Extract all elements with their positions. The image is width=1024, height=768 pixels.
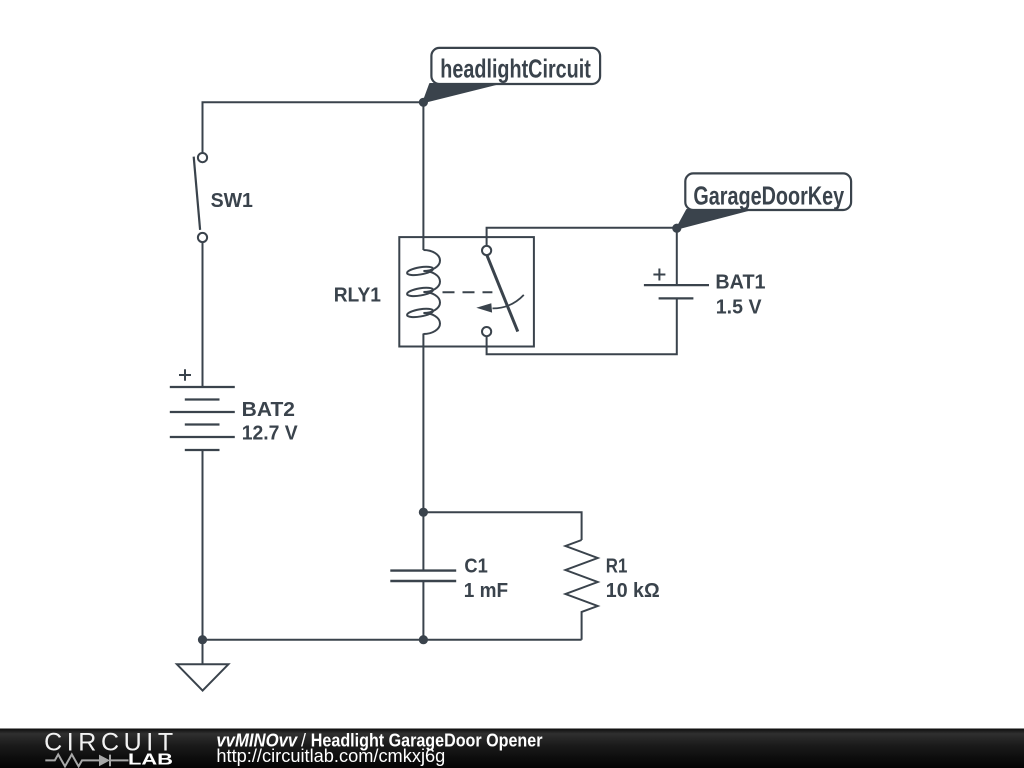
- svg-text:1 mF: 1 mF: [464, 580, 508, 602]
- wire relay switch top stub to GarageDoorKey node: [487, 228, 677, 251]
- svg-text:10 kΩ: 10 kΩ: [606, 580, 660, 602]
- svg-text:headlightCircuit: headlightCircuit: [440, 54, 591, 84]
- footer bar: [0, 729, 1024, 768]
- junction dot headlightCircuit: [419, 98, 428, 107]
- wire center vertical (headlightCircuit node to relay coil): [422, 102, 424, 250]
- wire BAT1 minus down and left to relay switch bottom: [487, 298, 677, 354]
- wire C1 bottom plate to bottom wire: [422, 581, 424, 640]
- junction dot GarageDoorKey: [672, 224, 681, 233]
- node GarageDoorKey bubble: [685, 173, 851, 210]
- switch SW1: [194, 153, 207, 242]
- svg-text:GarageDoorKey: GarageDoorKey: [693, 181, 844, 211]
- node headlightCircuit callout tail: [423, 84, 496, 102]
- capacitor C1: [390, 571, 456, 581]
- relay lever: [487, 255, 518, 331]
- wire top horizontal with left drop: [203, 102, 424, 152]
- svg-text:1.5 V: 1.5 V: [716, 296, 762, 318]
- wire bottom horizontal: [203, 639, 582, 641]
- relay RLY1 box: [399, 237, 534, 346]
- wire relay coil to C1 node: [422, 334, 424, 513]
- svg-text:12.7 V: 12.7 V: [242, 422, 299, 444]
- wire ground stub: [202, 640, 204, 665]
- relay arrow: [493, 295, 524, 309]
- relay coil: [423, 250, 440, 334]
- svg-text:BAT1: BAT1: [715, 271, 765, 293]
- wire SW1 bottom to BAT2: [202, 243, 204, 388]
- junction dot C1 top: [419, 508, 428, 517]
- resistor R1: [566, 540, 598, 640]
- battery BAT1: [644, 269, 709, 299]
- relay coil loopbacks: [406, 265, 433, 276]
- wire C1 node to C1 top plate: [422, 512, 424, 570]
- relay contact circles: [482, 246, 491, 255]
- wire GarageDoorKey node to BAT1 plus: [676, 228, 678, 285]
- svg-text:R1: R1: [606, 555, 628, 577]
- ground: [177, 664, 229, 690]
- node GarageDoorKey callout tail: [677, 210, 748, 229]
- node headlightCircuit bubble: [431, 48, 600, 84]
- logo resistor-diode art: [45, 754, 99, 766]
- svg-text:LAB: LAB: [128, 751, 173, 768]
- wire BAT2 to bottom-left node: [202, 450, 204, 640]
- svg-text:http://circuitlab.com/cmkxj6g: http://circuitlab.com/cmkxj6g: [216, 746, 445, 766]
- junction dot bottom center: [419, 635, 428, 644]
- svg-text:C1: C1: [464, 555, 487, 577]
- battery BAT2: [170, 369, 235, 450]
- relay dashed link: [443, 291, 493, 293]
- wire C1 node to R1 top: [423, 512, 581, 540]
- junction dot bottom left: [198, 635, 207, 644]
- svg-text:RLY1: RLY1: [334, 284, 381, 306]
- svg-text:SW1: SW1: [211, 190, 253, 212]
- svg-text:BAT2: BAT2: [242, 399, 295, 421]
